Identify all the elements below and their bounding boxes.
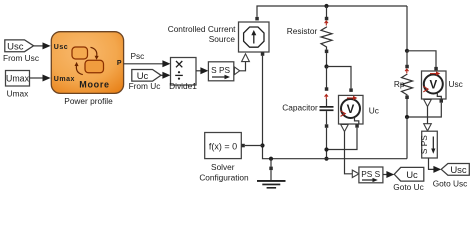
voltage sensor Usc: [422, 67, 463, 107]
resistor Rp: [394, 51, 413, 117]
PS wire Usc sensor to PS-S vertical: [427, 107, 429, 124]
wire Psc chart to Divide1: [124, 51, 171, 68]
junction solver node: [260, 143, 264, 147]
from tag Uc: [129, 70, 161, 92]
wire Divide1 to S-PS converter: [196, 67, 208, 74]
svg-text:V: V: [347, 104, 355, 116]
resistor branch wire top: [326, 6, 328, 17]
junction capacitor bottom: [324, 147, 328, 151]
svg-text:From Usc: From Usc: [3, 53, 39, 63]
goto tag Usc: [433, 164, 470, 189]
svg-text:Configuration: Configuration: [199, 172, 249, 182]
wire Umax to chart: [30, 75, 51, 82]
wire node to Uc sensor top: [327, 67, 352, 89]
svg-text:Resistor: Resistor: [287, 26, 318, 36]
wire Uc sensor minus to capacitor bottom: [327, 128, 358, 150]
svg-text:Source: Source: [209, 34, 236, 44]
svg-text:f(x) = 0: f(x) = 0: [209, 142, 237, 152]
svg-text:Capacitor: Capacitor: [282, 103, 318, 113]
divide block Divide1: [169, 58, 197, 92]
svg-text:Uc: Uc: [406, 170, 418, 181]
svg-text:Umax: Umax: [7, 89, 30, 99]
svg-text:S PS: S PS: [419, 135, 429, 154]
wire From-Usc to chart: [34, 42, 51, 49]
resistor: [287, 17, 332, 67]
PS wire Uc sensor to PS-S converter: [345, 132, 353, 174]
solver configuration block: [199, 133, 262, 183]
svg-text:Goto Usc: Goto Usc: [433, 178, 468, 188]
svg-text:Power profile: Power profile: [64, 96, 113, 106]
PS-Simulink converter vertical S PS: [419, 124, 437, 158]
Simulink-PS converter S PS: [208, 62, 239, 81]
svg-text:Umax: Umax: [6, 74, 30, 84]
svg-text:Goto Uc: Goto Uc: [393, 182, 423, 192]
svg-text:Solver: Solver: [211, 162, 235, 172]
wire PS-S to goto Uc: [383, 171, 394, 178]
wire Rp node to Usc sensor top: [407, 51, 436, 67]
svg-text:Controlled Current: Controlled Current: [168, 24, 236, 34]
junction Rp bottom: [405, 115, 409, 119]
Stateflow chart Power profile (Moore): [51, 32, 123, 106]
svg-text:Usc: Usc: [7, 41, 24, 52]
wire current source top to rail: [257, 6, 407, 17]
wire From-Uc to Divide1: [161, 72, 171, 79]
voltage sensor Uc: [339, 88, 379, 131]
junction Rp node: [405, 49, 409, 53]
svg-text:Usc: Usc: [54, 44, 68, 51]
svg-text:Divide1: Divide1: [169, 81, 197, 91]
junction top rail resistor: [324, 4, 328, 8]
PS wire S-PS to current source: [240, 54, 250, 71]
svg-text:V: V: [429, 80, 437, 92]
PS-Simulink converter PS S: [352, 167, 383, 183]
svg-text:Rp: Rp: [394, 79, 405, 89]
wire PS-S vertical to goto Usc: [429, 158, 442, 173]
capacitor: [282, 67, 333, 159]
controlled current source: [168, 17, 269, 56]
svg-text:Psc: Psc: [131, 51, 145, 61]
svg-text:Uc: Uc: [369, 106, 379, 116]
goto tag Uc: [393, 167, 424, 192]
constant block Umax: [6, 71, 30, 99]
junction ground rail: [269, 157, 273, 161]
wire Usc sensor minus to Rp bottom: [407, 103, 441, 117]
wire current source bottom to rail: [263, 56, 408, 159]
from tag Usc: [3, 40, 39, 63]
svg-text:From Uc: From Uc: [129, 81, 161, 91]
svg-text:Usc: Usc: [449, 79, 463, 89]
svg-text:Usc: Usc: [450, 165, 467, 176]
junction capacitor rail: [324, 157, 328, 161]
svg-text:P: P: [117, 60, 122, 67]
ground: [257, 159, 286, 189]
svg-text:Moore: Moore: [79, 80, 110, 90]
svg-text:PS S: PS S: [361, 169, 380, 179]
wire rail top right corner down: [406, 6, 408, 51]
junction resistor-capacitor node: [324, 64, 328, 68]
svg-text:Umax: Umax: [54, 76, 75, 83]
wire Rp column to bottom rail: [406, 117, 408, 159]
svg-text:S PS: S PS: [211, 65, 230, 75]
